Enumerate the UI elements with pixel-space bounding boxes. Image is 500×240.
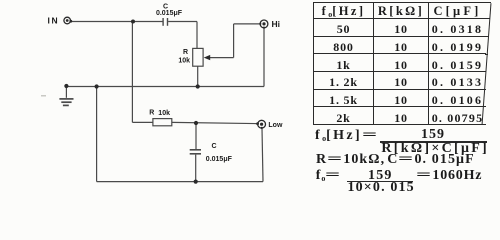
svg-text:10k: 10k (178, 58, 190, 65)
svg-text:0.015μF: 0.015μF (156, 10, 183, 17)
svg-text:C: C (212, 143, 217, 150)
svg-text:IN: IN (48, 16, 60, 26)
svg-text:Hi: Hi (272, 19, 281, 29)
svg-text:0.015μF: 0.015μF (206, 156, 233, 163)
svg-text:Low: Low (268, 122, 283, 129)
svg-text:10k: 10k (158, 110, 170, 117)
svg-text:R: R (183, 49, 188, 56)
svg-text:R: R (149, 110, 154, 117)
